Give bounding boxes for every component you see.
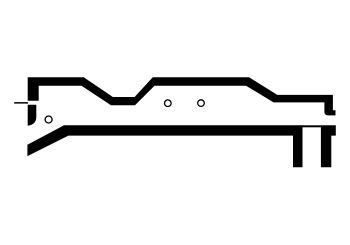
lower-left tapered flange tab xyxy=(28,105,37,126)
thin leader line at left xyxy=(14,102,28,104)
upper rail profile (zigzag band with left vertical flange and right hook foot) xyxy=(28,77,336,115)
hole H1 (left small circle) xyxy=(45,116,52,123)
right end block with second leg xyxy=(321,125,336,167)
lower sill bar with left diagonal end and first leg xyxy=(27,125,302,167)
hole H2 (middle small circle) xyxy=(165,100,172,107)
thin web line between legs xyxy=(303,125,321,127)
hole H3 (right small circle) xyxy=(198,100,205,107)
